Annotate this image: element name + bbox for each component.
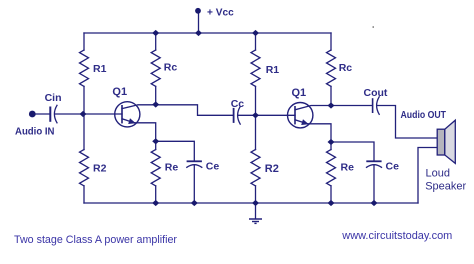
svg-text:Two stage Class A power amplif: Two stage Class A power amplifier [14, 234, 177, 246]
resistor R2 (stage 2) [251, 150, 260, 186]
transistor Q2 emitter arrow [301, 119, 309, 125]
ground stub [255, 206, 257, 219]
svg-text:Rc: Rc [339, 62, 353, 74]
wire Re2 bottom lead [330, 186, 332, 203]
svg-text:R1: R1 [266, 64, 280, 76]
wire top rail [84, 32, 331, 34]
wire Vcc stub [198, 11, 200, 33]
capacitor Ce (stage 2) plate curved [367, 165, 382, 168]
svg-text:Rc: Rc [164, 62, 178, 74]
wire Rc1 bottom lead [155, 86, 157, 104]
ground symbol [249, 219, 262, 223]
wire R2b bottom lead [255, 186, 257, 203]
node junction bottom rail ground [252, 200, 259, 206]
node junction bottom rail Ce1 [191, 200, 198, 206]
svg-text:R1: R1 [93, 63, 107, 75]
capacitor Ce (stage 1) plate flat [188, 160, 202, 162]
wire Re1 top lead [155, 141, 157, 149]
resistor Re (stage 1) [151, 150, 160, 186]
wire Re2 junction to Ce2 [331, 142, 374, 161]
capacitor Cin plate flat [49, 108, 51, 121]
svg-text:www.circuitstoday.com: www.circuitstoday.com [341, 230, 452, 242]
transistor Q2 base bar [294, 107, 296, 124]
node junction base Q1a [80, 111, 87, 117]
node junction emitter Q2 [328, 139, 335, 145]
wire R2b top lead [255, 115, 257, 149]
node junction emitter Q1a [152, 138, 159, 144]
svg-text:Loud: Loud [426, 168, 450, 180]
stray dot [372, 26, 374, 28]
loudspeaker [437, 120, 455, 163]
resistor Rc (stage 1) [151, 50, 160, 86]
wire R1a column top lead [83, 33, 85, 50]
wire Re junction to Ce1 [156, 141, 195, 160]
svg-text:Ce: Ce [206, 161, 220, 173]
node junction bottom rail Re1 [152, 200, 159, 206]
capacitor Cout plate flat [372, 99, 374, 112]
resistor R2 (stage 1) [80, 150, 89, 186]
transistor Q1 base bar [121, 106, 123, 123]
transistor Q1 emitter [122, 119, 135, 123]
wire Re1 bottom lead [155, 186, 157, 203]
wire Q2 emitter to Re junction [308, 124, 332, 142]
wire Cout to speaker [377, 106, 438, 139]
svg-text:Cout: Cout [364, 87, 388, 99]
node junction top rail at Rc1 [152, 30, 159, 36]
svg-text:Ce: Ce [386, 161, 400, 173]
capacitor Cc plate flat [233, 109, 235, 122]
svg-text:Re: Re [341, 161, 355, 173]
wire base Q2 [256, 114, 296, 116]
svg-text:Speaker: Speaker [425, 181, 466, 193]
wire R2a top lead [83, 114, 85, 150]
transistor Q2 emitter [295, 120, 308, 124]
node junction top rail at R1b [252, 30, 259, 36]
wire input to Cin [33, 113, 49, 115]
wire Cin to base junction [55, 113, 83, 115]
capacitor Cout plate curved [377, 97, 380, 115]
resistor Rc (stage 2) [327, 50, 336, 86]
svg-text:Re: Re [165, 161, 179, 173]
node junction top rail at Vcc [195, 30, 202, 36]
transistor Q1 emitter arrow [128, 118, 136, 124]
wire Rc2 top lead [330, 33, 332, 50]
wire Ce1 bottom lead [193, 166, 195, 204]
capacitor Ce (stage 1) plate curved [187, 165, 202, 168]
transistor Q1 collector [122, 105, 156, 109]
svg-text:Audio IN: Audio IN [15, 125, 55, 137]
node input terminal [29, 111, 36, 118]
wire Cc to stage2 base junction [238, 114, 255, 116]
resistor R1 (stage 1) [80, 50, 89, 86]
node junction base Q2 [252, 112, 259, 118]
node junction bottom rail Re2 [328, 200, 335, 206]
svg-text:Cin: Cin [45, 92, 62, 104]
resistor Re (stage 2) [327, 150, 336, 186]
svg-text:+ Vcc: + Vcc [207, 6, 234, 18]
wire R2a bottom lead [83, 186, 85, 203]
transistor Q1 (stage 1) circle [115, 102, 140, 127]
svg-text:R2: R2 [93, 162, 107, 174]
transistor Q2 collector [295, 106, 331, 110]
wire Re2 top lead [330, 142, 332, 150]
wire speaker return riser [418, 148, 438, 204]
transistor Q1 (stage 2) circle [288, 103, 313, 128]
wire Rc2 bottom lead [330, 86, 332, 105]
wire Ce2 bottom lead [373, 166, 375, 204]
capacitor Cin plate curved [54, 105, 57, 123]
wire collector junction to Cc [156, 105, 233, 116]
wire base Q1a [83, 113, 122, 115]
wire R1b bottom lead [255, 86, 257, 115]
node Vcc terminal [195, 8, 201, 14]
wire bottom rail [84, 202, 418, 204]
svg-text:R2: R2 [265, 163, 279, 175]
wire R1a bottom lead [83, 86, 85, 114]
svg-text:Q1: Q1 [112, 86, 127, 98]
svg-text:Q1: Q1 [292, 87, 307, 99]
wire Q1a emitter to Re junction [135, 123, 156, 142]
wire Q2 collector to Cout [331, 105, 372, 107]
capacitor Ce (stage 2) plate flat [367, 160, 381, 162]
resistor R1 (stage 2) [251, 50, 260, 86]
node junction collector Q2 [328, 102, 335, 108]
svg-text:Audio OUT: Audio OUT [401, 109, 447, 121]
wire R1b top lead [255, 33, 257, 50]
wire Rc1 top lead [155, 33, 157, 50]
node junction bottom rail Ce2 [371, 200, 378, 206]
node junction collector Q1a [152, 101, 159, 107]
capacitor Cc plate curved [238, 107, 241, 125]
svg-text:Cc: Cc [231, 98, 245, 110]
